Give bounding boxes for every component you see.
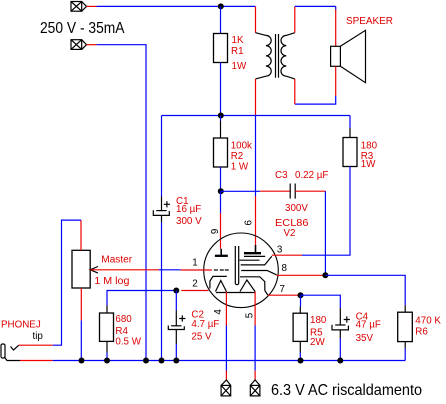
svg-text:tip: tip: [33, 331, 44, 342]
wire primary bottom to plate: [255, 116, 257, 197]
lead heater terminal right: [254, 371, 256, 380]
svg-text:35V: 35V: [356, 333, 374, 344]
svg-text:1W: 1W: [232, 61, 247, 72]
heater filament right: [240, 280, 255, 292]
svg-text:7: 7: [280, 284, 285, 295]
pentode cathode: [240, 277, 265, 291]
label R2 values: [231, 140, 252, 172]
svg-text:6: 6: [243, 220, 254, 226]
transformer T1 primary lead bottom: [255, 79, 257, 116]
lead pot top: [80, 220, 82, 250]
transformer T1 core: [276, 34, 279, 78]
pentode plate: [244, 245, 261, 253]
resistor R6: [404, 305, 406, 312]
svg-text:47 µF: 47 µF: [356, 319, 381, 330]
svg-text:1 W: 1 W: [231, 161, 249, 172]
wire pin 2 to R4: [107, 291, 176, 306]
wire pot top to jack tip: [53, 220, 81, 345]
svg-text:SPEAKER: SPEAKER: [346, 16, 393, 27]
svg-text:0.22 µF: 0.22 µF: [295, 170, 328, 181]
label C3 values: [275, 170, 328, 214]
wire plate node to C3: [221, 190, 261, 192]
pot wiper arrow: [90, 267, 98, 274]
lead heater pin 5: [254, 292, 256, 326]
lead from terminal X2: [87, 44, 97, 46]
label R5 values: [310, 315, 327, 348]
svg-text:1 M log: 1 M log: [94, 276, 129, 287]
capacitor C3: [260, 190, 290, 192]
label R4 values: [115, 314, 141, 347]
lead tube pin 2: [181, 290, 208, 292]
capacitor C1: [153, 197, 170, 223]
lead pot wiper: [90, 269, 159, 271]
resistor R1: [220, 6, 222, 33]
wire pot bottom to ground: [80, 320, 82, 360]
speaker top lead: [335, 9, 337, 46]
lead pot bottom: [80, 288, 82, 320]
label C2 values: [191, 310, 219, 343]
node pin 8 junction: [322, 272, 328, 278]
svg-text:C3: C3: [275, 170, 288, 181]
svg-text:470 K: 470 K: [415, 316, 441, 327]
lead tube pin 3: [272, 254, 302, 256]
wire B+ to C1: [161, 116, 163, 197]
lead jack sleeve: [20, 360, 53, 362]
lead tube pin 1: [181, 269, 212, 271]
svg-text:2W: 2W: [310, 337, 325, 348]
lead from terminal X1: [87, 5, 97, 7]
transformer secondary top lead: [294, 6, 296, 32]
node ground junctions: [79, 358, 344, 364]
label C1 values: [176, 196, 202, 227]
terminal X2 (250V return): [71, 40, 87, 50]
pentode beam plate line: [244, 255, 265, 257]
wire pin 8 to R6: [325, 275, 405, 305]
svg-text:4.7 µF: 4.7 µF: [191, 319, 219, 330]
lead to pentode plate pin 6: [255, 196, 257, 245]
svg-text:5: 5: [244, 312, 255, 318]
speaker LS1: [331, 30, 366, 82]
wire ground rail: [53, 360, 406, 362]
label R6 values: [415, 316, 441, 338]
heater bottom line: [216, 292, 255, 294]
node pin 7 junction: [298, 292, 304, 298]
svg-text:1W: 1W: [361, 159, 376, 170]
svg-text:Master: Master: [101, 254, 133, 265]
node pin 2 junction: [173, 288, 179, 294]
wire terminal X2 to ground rail: [97, 45, 146, 361]
svg-text:25 V: 25 V: [191, 332, 212, 343]
lead tube pin 8: [277, 274, 326, 276]
svg-text:16 µF: 16 µF: [176, 204, 201, 215]
resistor R4: [106, 306, 108, 314]
wire heater pin 5: [254, 326, 256, 371]
capacitor C4: [332, 308, 350, 338]
label C4 values: [356, 312, 381, 345]
partition between systems: [235, 246, 238, 285]
svg-text:R6: R6: [415, 327, 428, 338]
svg-text:100k: 100k: [231, 140, 252, 151]
transformer T1 primary lead top: [255, 6, 257, 32]
wire wiper to pin 1: [159, 269, 181, 271]
terminal X4 (6.3V): [250, 380, 260, 396]
svg-text:1: 1: [192, 258, 197, 269]
transformer T1 secondary winding: [281, 33, 295, 79]
wire heater pin 4: [225, 326, 227, 371]
resistor R3: [349, 116, 351, 129]
svg-text:8: 8: [282, 263, 288, 274]
svg-text:9: 9: [210, 229, 221, 234]
svg-text:6.3 V AC riscaldamento: 6.3 V AC riscaldamento: [271, 382, 422, 399]
wire C2 to ground: [175, 344, 177, 361]
wire plate node down: [220, 191, 222, 213]
lead heater pin 4: [225, 292, 227, 326]
triode grid (dashed): [214, 269, 229, 271]
svg-text:250 V - 35mA: 250 V - 35mA: [40, 20, 125, 37]
pentode grid g1 with lead to pin 8: [241, 271, 276, 275]
node triode plate junction: [218, 188, 224, 194]
label R1 values: [231, 35, 247, 72]
heater filament left: [216, 281, 227, 292]
svg-text:2: 2: [192, 279, 197, 290]
wire C4 to ground: [339, 338, 341, 361]
wire speaker to secondary bottom: [295, 96, 336, 104]
wire B+ rail: [162, 115, 351, 117]
label R3 values: [361, 140, 378, 170]
triode plate: [215, 249, 228, 256]
pentode grid g3: [240, 259, 260, 261]
tube V2 ECL86 envelope: [204, 233, 279, 308]
svg-text:180: 180: [310, 315, 327, 326]
wire pin 7 node to R5: [300, 295, 302, 306]
node top rail junction: [218, 3, 224, 9]
wire pin2 node to C2: [175, 291, 177, 311]
svg-text:1K: 1K: [232, 35, 244, 46]
svg-text:V2: V2: [284, 228, 296, 239]
wire secondary top: [295, 5, 336, 7]
svg-text:300 V: 300 V: [176, 216, 202, 227]
wire C1 to ground rail: [161, 222, 163, 360]
resistor R2: [220, 116, 222, 122]
wire pin 7 to C4: [301, 295, 341, 308]
transformer T1 primary winding: [256, 33, 272, 79]
lead to triode plate pin 9: [220, 213, 222, 249]
pin labels rotated 9 6 4 5: [210, 220, 256, 319]
triode cathode: [210, 276, 227, 288]
svg-text:R1: R1: [231, 46, 244, 57]
speaker bottom lead: [335, 66, 337, 96]
lead jack tip: [19, 344, 53, 346]
node B+ junction: [218, 113, 224, 119]
lead heater terminal left: [225, 371, 227, 380]
terminal X3 (6.3V): [221, 380, 231, 396]
svg-text:300V: 300V: [285, 203, 308, 214]
transformer secondary bottom lead: [294, 79, 296, 104]
capacitor C2: [168, 310, 185, 344]
pin labels 1 2 3 8 7: [192, 244, 287, 295]
svg-text:680: 680: [115, 314, 132, 325]
svg-text:PHONEJ: PHONEJ: [1, 319, 41, 330]
jack PHONEJ: [1, 344, 20, 361]
wire R3 to pin 3: [302, 167, 350, 256]
svg-text:4: 4: [213, 309, 224, 315]
pentode grid g2 with lead to pin 3: [241, 256, 272, 265]
terminal X1 (250V +): [71, 2, 87, 12]
svg-text:180: 180: [361, 140, 378, 151]
label ECL86 V2: [275, 218, 309, 239]
potentiometer R? Master: [72, 250, 90, 288]
wire top rail: [97, 5, 256, 7]
svg-text:0.5 W: 0.5 W: [115, 336, 141, 347]
lead tube pin 7: [268, 294, 301, 296]
resistor R5: [299, 307, 301, 314]
svg-text:3: 3: [277, 244, 283, 255]
